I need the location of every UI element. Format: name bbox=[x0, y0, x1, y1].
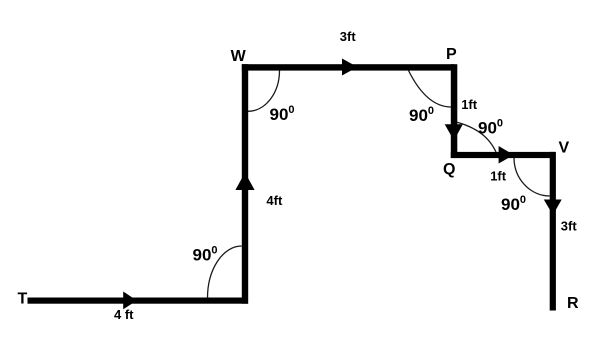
angle arc at W (90 deg) bbox=[248, 71, 280, 112]
svg-text:1ft: 1ft bbox=[490, 169, 507, 184]
svg-text:3ft: 3ft bbox=[340, 29, 357, 44]
arrowhead on segment V-R (pointing down) bbox=[544, 200, 562, 216]
svg-text:4ft: 4ft bbox=[266, 193, 283, 208]
arrowhead on segment Q-V (pointing right) bbox=[499, 146, 514, 164]
wire segment W to P (horizontal, 3ft) bbox=[242, 64, 455, 70]
svg-text:Q: Q bbox=[443, 161, 455, 178]
svg-text:900: 900 bbox=[193, 245, 218, 265]
svg-text:1ft: 1ft bbox=[461, 97, 478, 112]
svg-text:900: 900 bbox=[409, 105, 434, 125]
svg-text:P: P bbox=[446, 46, 457, 63]
svg-text:900: 900 bbox=[501, 194, 526, 214]
wire segment bend to W (vertical, 4ft) bbox=[242, 64, 248, 304]
arrowhead on segment P-Q (pointing down) bbox=[445, 124, 463, 140]
svg-text:R: R bbox=[567, 295, 579, 312]
angle arc at V (90 deg) bbox=[514, 158, 550, 197]
svg-text:3ft: 3ft bbox=[561, 219, 578, 234]
svg-text:900: 900 bbox=[270, 104, 295, 124]
angle arc at first bend (90 deg between T-line and vertical) bbox=[208, 246, 242, 298]
wire segment P to Q (vertical, 1ft) bbox=[451, 64, 458, 158]
arrowhead on segment T-bend (pointing right) bbox=[123, 292, 137, 310]
wire segment T to first bend (horizontal, 4 ft) bbox=[28, 298, 249, 304]
svg-text:900: 900 bbox=[478, 117, 503, 137]
svg-text:V: V bbox=[559, 140, 570, 157]
wire segment V to R (vertical, 3ft) bbox=[550, 152, 556, 311]
arrowhead on segment bend-W (pointing up) bbox=[235, 173, 254, 191]
svg-text:T: T bbox=[18, 291, 28, 308]
angle arc at Q (90 deg) bbox=[457, 122, 496, 152]
svg-text:4 ft: 4 ft bbox=[114, 307, 134, 322]
arrowhead on segment W-P (pointing right) bbox=[342, 59, 358, 76]
angle arc at P (90 deg) bbox=[409, 71, 452, 108]
svg-text:W: W bbox=[231, 48, 247, 65]
wire segment Q to V (horizontal, 1ft) bbox=[451, 152, 555, 158]
